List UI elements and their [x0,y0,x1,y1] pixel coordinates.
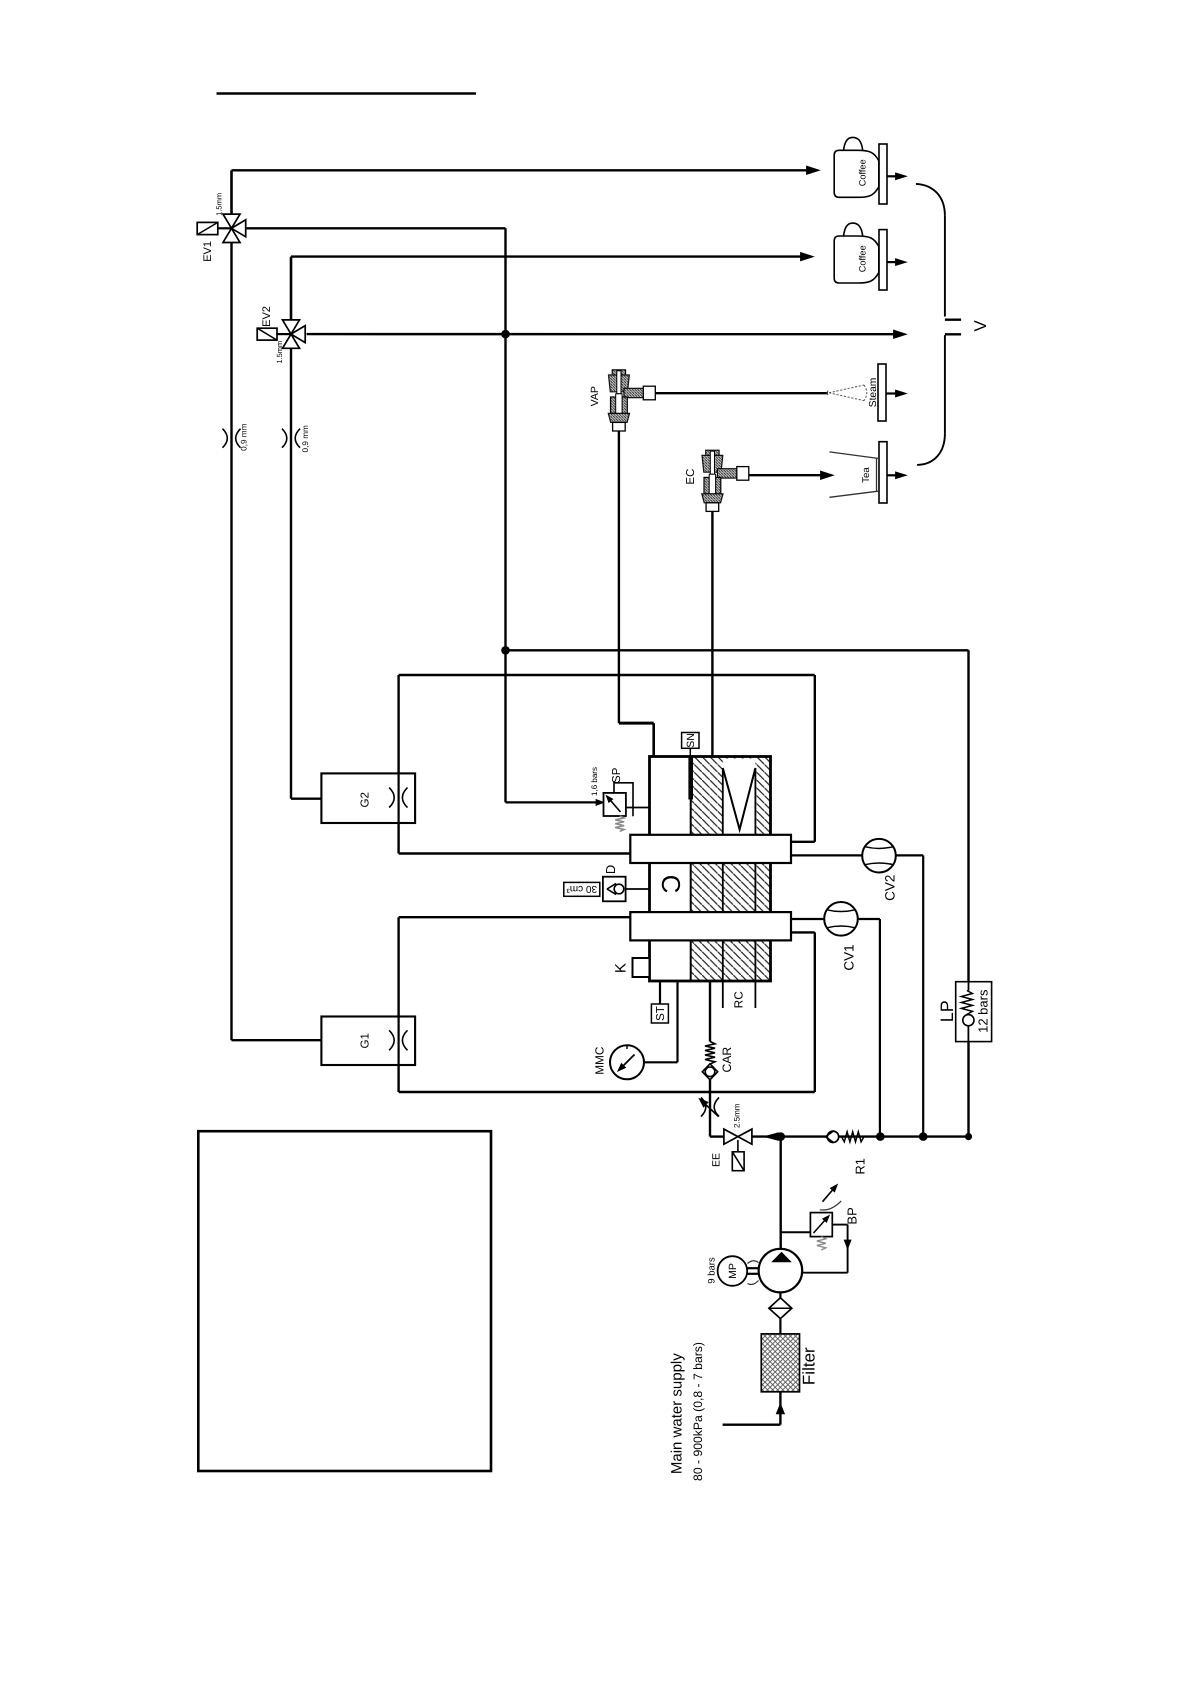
svg-text:1.5mm: 1.5mm [214,193,223,216]
svg-text:MMC: MMC [592,1046,606,1075]
svg-text:30 cm³: 30 cm³ [566,883,597,894]
svg-text:Tea: Tea [861,467,872,483]
svg-text:EC: EC [685,469,697,485]
svg-text:CAR: CAR [720,1047,734,1073]
svg-text:1,6 bars: 1,6 bars [590,767,599,796]
svg-text:SN: SN [685,733,697,748]
svg-text:C: C [656,875,686,894]
svg-text:V: V [971,320,990,332]
svg-text:K: K [612,963,629,973]
svg-text:MP: MP [727,1263,739,1279]
svg-text:ST: ST [655,1006,667,1021]
svg-text:Steam: Steam [868,378,879,407]
svg-text:RC: RC [732,991,746,1009]
svg-text:80 - 900kPa (0,8 - 7 bars): 80 - 900kPa (0,8 - 7 bars) [691,1342,705,1481]
svg-text:VAP: VAP [589,386,601,406]
svg-text:EV2: EV2 [261,306,273,327]
svg-text:0,9 mm: 0,9 mm [301,425,310,452]
svg-text:EE: EE [710,1153,722,1167]
svg-text:EV1: EV1 [202,241,214,262]
svg-text:0,9 mm: 0,9 mm [240,423,249,450]
svg-text:G1: G1 [359,1033,371,1048]
svg-text:9 bars: 9 bars [706,1257,717,1284]
svg-text:2.5mm: 2.5mm [733,1103,742,1128]
svg-text:BP: BP [845,1207,860,1224]
svg-text:Main water supply: Main water supply [668,1353,685,1474]
svg-text:R1: R1 [852,1158,867,1174]
svg-text:G2: G2 [359,792,371,807]
svg-text:1.5mm: 1.5mm [275,341,284,364]
svg-text:D: D [603,865,618,874]
svg-text:Coffee: Coffee [858,159,868,186]
svg-text:SP: SP [611,767,623,783]
svg-text:Filter: Filter [799,1347,818,1385]
svg-text:LP: LP [937,1000,957,1022]
svg-text:Coffee: Coffee [858,245,868,272]
svg-text:CV2: CV2 [883,875,898,901]
svg-text:12 bars: 12 bars [975,989,990,1033]
svg-text:CV1: CV1 [842,944,857,970]
